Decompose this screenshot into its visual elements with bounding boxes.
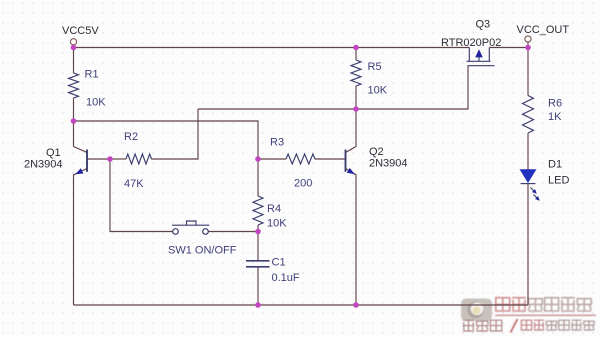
svg-text:10K: 10K: [86, 97, 106, 109]
svg-text:R4: R4: [267, 203, 281, 215]
svg-text:LED: LED: [548, 175, 569, 187]
svg-text:Q1: Q1: [46, 147, 61, 159]
svg-text:200: 200: [294, 178, 312, 190]
svg-text:R1: R1: [85, 69, 99, 81]
svg-text:R2: R2: [124, 131, 138, 143]
svg-text:47K: 47K: [124, 178, 144, 190]
svg-text:RTR020P02: RTR020P02: [441, 37, 501, 49]
svg-text:1K: 1K: [548, 111, 562, 123]
svg-text:D1: D1: [548, 159, 562, 171]
svg-text:10K: 10K: [368, 85, 388, 97]
svg-text:R3: R3: [270, 137, 284, 149]
svg-text:VCC5V: VCC5V: [62, 25, 99, 37]
svg-text:R6: R6: [548, 98, 562, 110]
svg-text:C1: C1: [272, 257, 286, 269]
svg-text:0.1uF: 0.1uF: [272, 272, 300, 284]
svg-text:10K: 10K: [267, 218, 287, 230]
svg-text:2N3904: 2N3904: [24, 159, 63, 171]
svg-text:VCC_OUT: VCC_OUT: [517, 24, 570, 36]
svg-text:Q2: Q2: [369, 146, 384, 158]
svg-text:Q3: Q3: [476, 19, 491, 31]
svg-text:SW1 ON/OFF: SW1 ON/OFF: [168, 245, 237, 257]
svg-text:2N3904: 2N3904: [369, 158, 408, 170]
svg-text:R5: R5: [368, 61, 382, 73]
